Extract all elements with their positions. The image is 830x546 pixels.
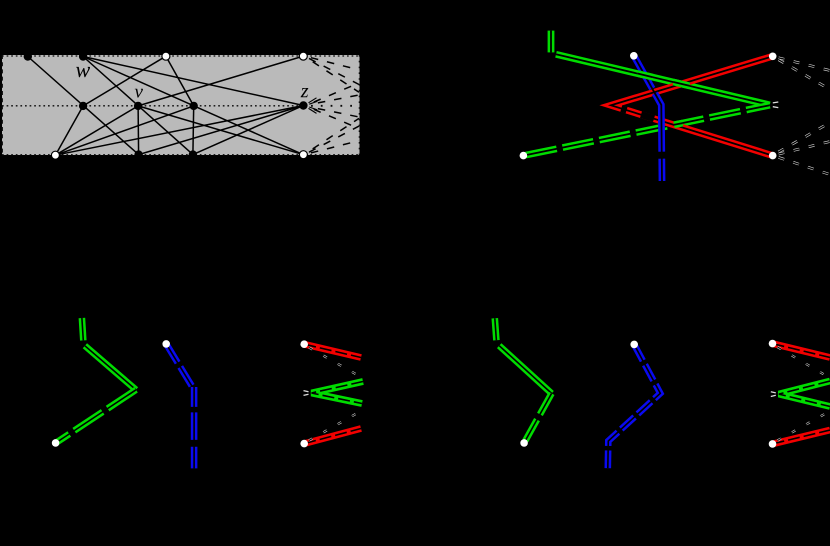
dashed half-edge K2 c [779, 157, 830, 174]
dashed half-edge K2 b [779, 123, 830, 153]
vertex F white [51, 151, 59, 159]
fig-f hairpin tip ticks [771, 392, 776, 397]
vertex G [134, 150, 142, 158]
edge F-v [55, 106, 138, 155]
fig-c hairpin tip ticks [304, 391, 309, 396]
fig-e blue path [608, 345, 661, 468]
box dotted right border [358, 55, 360, 155]
fig-f white-cased dashed edges [778, 347, 830, 441]
node M white [630, 52, 638, 60]
edge v-G [137, 106, 140, 155]
whiskers at z [309, 98, 318, 114]
green-over-crossing patches [638, 74, 690, 125]
vertex B (w) [79, 52, 87, 60]
edge I-J [192, 106, 195, 155]
vertex v [134, 102, 142, 110]
fig-b blue path [166, 344, 194, 469]
fig-c white-cased dashed edges [309, 348, 361, 441]
dashed edge from H 3 [309, 59, 360, 92]
fig-c red edge top [304, 344, 361, 357]
fig-a green path [56, 318, 136, 443]
vertex J [189, 150, 197, 158]
dashed half-edge fan in box [309, 57, 360, 153]
edge C-I [166, 56, 194, 106]
dashed edge from z 3 [311, 107, 359, 117]
fig-b node [162, 340, 170, 348]
edge D-F [55, 106, 83, 155]
edge F-I [55, 106, 193, 155]
dashed edge from z 2 [311, 95, 359, 104]
vertex A [24, 52, 32, 60]
edge J-z [193, 106, 304, 155]
edge A-G [28, 57, 139, 155]
red dash gaps on lower branch [621, 109, 626, 111]
node H2 white [769, 53, 777, 61]
box dashed left border [1, 55, 3, 155]
edge B-J through v [83, 57, 193, 155]
dashed half-edge K2 a [779, 142, 830, 155]
box dotted middle line [2, 105, 300, 107]
box dotted bottom border [2, 154, 360, 156]
fig-c node top [300, 340, 308, 348]
edge v-K [138, 106, 303, 155]
fig-e node [630, 341, 638, 349]
edge v-H [138, 56, 303, 106]
blue path dashed [634, 56, 662, 181]
fig-c red edge bottom [304, 429, 361, 444]
vertex H white [299, 52, 307, 60]
label v [135, 89, 143, 98]
dashed edge from z 1 [311, 83, 359, 103]
vertex D [79, 102, 87, 110]
label w [76, 67, 90, 77]
fig-f node bottom [769, 440, 777, 448]
vertex K white [299, 151, 307, 159]
dashed edge from H 1 [309, 57, 359, 70]
node K2 white [769, 152, 777, 160]
gray region box [2, 55, 360, 155]
sparse dotted half-edge right of z [311, 105, 359, 107]
black edges of left graph [28, 56, 304, 155]
vertex z [299, 101, 307, 109]
edge B-K [83, 57, 303, 155]
fig-f node top [769, 340, 777, 348]
fig-d green path [495, 318, 552, 443]
dashed edge from K 1 [309, 141, 359, 154]
white-cased dashed half-edges at right nodes [779, 58, 830, 175]
fig-d node [520, 439, 528, 447]
fig-f green hairpin [779, 381, 830, 407]
edge C-D [83, 56, 166, 106]
edge B-z [83, 57, 303, 106]
red path [611, 56, 773, 155]
green hairpin tip ticks (top-right) [773, 102, 779, 108]
fig-a node [52, 439, 60, 447]
label z [301, 88, 309, 97]
green path stub+diag [551, 31, 770, 105]
dashed half-edge H2 b [779, 60, 830, 90]
fig-c node bottom [300, 440, 308, 448]
dashed edge from K 2 [309, 126, 359, 152]
dashed edge from K 3 [309, 118, 360, 151]
edge F-z [55, 106, 303, 156]
dashed edge from H 2 [309, 58, 359, 84]
node F2 white [520, 152, 528, 160]
edge G-z [139, 106, 304, 155]
dashed edge from z 4 [311, 108, 359, 128]
vertex C white [162, 52, 170, 60]
fig-c green hairpin [312, 382, 364, 404]
dashed half-edge H2 a [779, 58, 830, 71]
fig-f red edge bottom [773, 430, 830, 444]
box dotted top border [2, 55, 360, 57]
green path return dashed [523, 105, 769, 155]
fig-f red edge top [773, 344, 830, 358]
vertex I [190, 102, 198, 110]
